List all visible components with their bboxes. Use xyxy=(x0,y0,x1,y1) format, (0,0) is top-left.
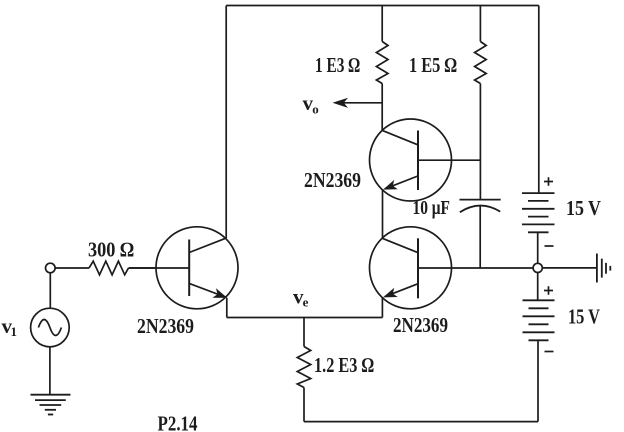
label v_o xyxy=(303,91,319,117)
ground (right, chassis) xyxy=(597,254,610,283)
wire top rail xyxy=(226,5,539,7)
battery V2 (lower 15 V) xyxy=(523,300,555,340)
transistor U1 base bar xyxy=(188,240,190,297)
label 2N2369 (U1) xyxy=(137,314,194,338)
label 2N2369 (U3) xyxy=(393,313,448,337)
transistor U3 (bottom right 2N2369) circle xyxy=(370,227,452,309)
label battery V1 minus xyxy=(545,245,554,247)
arrow v_o output xyxy=(333,98,383,108)
wire U3 emitter down to v_e rail xyxy=(381,298,383,318)
node emitter/ground junction xyxy=(533,263,542,272)
wire v_e rail xyxy=(227,317,383,319)
label 1 E3 Ω xyxy=(315,53,360,77)
label 1.2 E3 Ω xyxy=(314,353,374,377)
label P2.14 xyxy=(158,412,198,432)
wire U1 emitter down to v_e rail xyxy=(226,298,228,318)
transistor U2 collector line xyxy=(383,131,418,145)
label v1 xyxy=(2,314,18,339)
svg-text:2N2369: 2N2369 xyxy=(137,314,194,338)
resistor 300 ohm input xyxy=(55,261,156,275)
battery V1 (upper 15 V) xyxy=(522,193,555,232)
label 2N2369 (U2) xyxy=(304,168,361,192)
wire battery V2 to node xyxy=(537,272,539,300)
wire node to right ground xyxy=(542,267,597,269)
resistor 1.2 E3 bottom lead xyxy=(303,388,305,422)
capacitor C1 curved plate xyxy=(460,206,500,213)
wire terminal to source v1 xyxy=(49,273,51,309)
resistor 1 E5 xyxy=(475,42,487,84)
svg-text:1 E5 Ω: 1 E5 Ω xyxy=(409,53,457,77)
transistor U3 emitter line with arrow xyxy=(383,284,418,298)
svg-text:2N2369: 2N2369 xyxy=(304,168,361,192)
wire 1E5 resistor top lead xyxy=(479,6,481,42)
node input terminal xyxy=(46,263,56,273)
transistor U2 base bar xyxy=(417,131,419,191)
wire capacitor bottom lead xyxy=(479,206,481,268)
wire right vertical (top rail to battery V1) xyxy=(538,6,540,194)
label v_e xyxy=(293,285,309,310)
wire source to ground xyxy=(49,347,51,395)
wire node to battery V1 xyxy=(537,232,539,263)
wire 1E3 resistor top lead xyxy=(381,6,383,42)
transistor U2 base lead xyxy=(418,159,480,161)
transistor U2 emitter line with arrow xyxy=(383,176,418,190)
source v1 (sine) xyxy=(31,308,70,347)
resistor 1.2 E3 top lead xyxy=(303,318,305,347)
label 1 E5 Ω xyxy=(409,53,457,77)
svg-text:1: 1 xyxy=(11,324,18,339)
transistor U3 base lead to node xyxy=(418,267,533,269)
resistor 1.2 E3 xyxy=(297,347,310,388)
svg-text:e: e xyxy=(303,295,309,310)
wire U2 emitter to U3 collector xyxy=(382,190,384,239)
resistor 1 E3 xyxy=(376,42,388,84)
wire 1E5 bottom lead to capacitor xyxy=(479,84,481,200)
transistor U1 emitter line with arrow xyxy=(189,283,227,298)
svg-text:1.2 E3 Ω: 1.2 E3 Ω xyxy=(314,353,374,377)
svg-text:15 V: 15 V xyxy=(566,196,601,220)
label 300 Ω xyxy=(88,238,134,262)
transistor U2 (top right 2N2369) circle xyxy=(370,119,452,201)
label battery V2 plus xyxy=(544,286,553,295)
transistor U1 collector line xyxy=(189,238,226,252)
ground (left, earth) xyxy=(31,395,71,415)
label battery V1 plus xyxy=(544,177,553,186)
transistor U3 collector line xyxy=(383,238,418,252)
label 10 uF xyxy=(413,197,451,219)
svg-text:o: o xyxy=(312,102,319,117)
svg-text:1 E3 Ω: 1 E3 Ω xyxy=(315,53,360,77)
label 15 V (upper) xyxy=(566,196,601,220)
label 15 V (lower) xyxy=(568,305,600,329)
transistor U3 base bar xyxy=(417,238,419,298)
transistor U1 base lead xyxy=(129,267,190,269)
label battery V2 minus xyxy=(545,351,554,353)
svg-text:2N2369: 2N2369 xyxy=(393,313,448,337)
svg-text:P2.14: P2.14 xyxy=(158,412,198,432)
svg-text:15 V: 15 V xyxy=(568,305,600,329)
wire bottom rail up to battery V2 xyxy=(537,340,539,421)
svg-text:10 μF: 10 μF xyxy=(413,197,451,219)
wire left vertical (T1 collector to top rail) xyxy=(225,6,227,239)
wire bottom rail xyxy=(304,421,538,423)
wire 1E3 bottom lead to T2 collector xyxy=(381,84,383,131)
transistor U1 (left 2N2369) circle xyxy=(156,227,238,309)
svg-text:300 Ω: 300 Ω xyxy=(88,238,134,262)
capacitor C1 top plate xyxy=(460,199,501,201)
